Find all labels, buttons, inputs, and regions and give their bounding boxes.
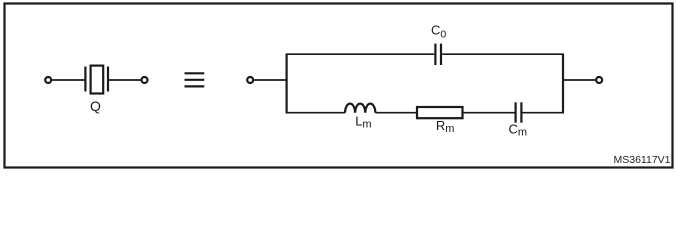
svg-text:Rm: Rm	[436, 118, 455, 135]
svg-text:Cm: Cm	[509, 121, 528, 138]
svg-text:C0: C0	[431, 23, 446, 41]
svg-text:Q: Q	[90, 98, 101, 114]
svg-text:MS36117V1: MS36117V1	[613, 154, 670, 166]
svg-text:Lm: Lm	[355, 114, 371, 131]
